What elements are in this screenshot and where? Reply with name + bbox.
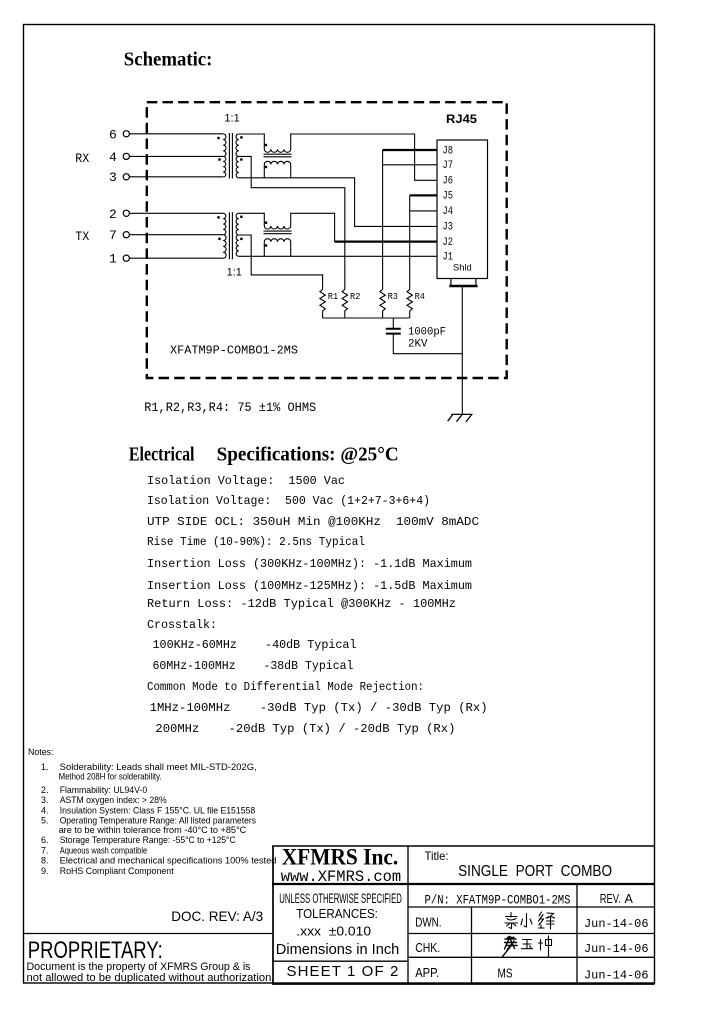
svg-text:8.: 8. [41,855,49,865]
svg-text:3.: 3. [41,795,49,805]
svg-text:DWN.: DWN. [415,916,441,930]
svg-text:1MHz-100MHz -30dB Typ (Tx): 1MHz-100MHz -30dB Typ (Tx) / -30dB Typ (… [150,701,488,715]
svg-text:6: 6 [109,127,117,142]
svg-text:Jun-14-06: Jun-14-06 [584,942,649,956]
svg-text:200MHz -20dB Typ (Tx) / -20: 200MHz -20dB Typ (Tx) / -20dB Typ (Rx) [155,722,455,736]
svg-text:J2: J2 [443,237,454,249]
svg-text:Insertion Loss (100MHz-125MHz): Insertion Loss (100MHz-125MHz): -1.5dB M… [147,579,472,593]
svg-text:TOLERANCES:: TOLERANCES: [296,906,378,921]
svg-text:2: 2 [109,207,117,222]
svg-text:R1: R1 [328,291,339,302]
svg-text:Electrical and mechanical spec: Electrical and mechanical specifications… [60,855,277,865]
svg-text:Jun-14-06: Jun-14-06 [584,968,649,982]
svg-text:1.: 1. [41,762,49,772]
svg-text:R3: R3 [388,291,399,302]
svg-text:9.: 9. [41,866,49,876]
svg-text:P/N: XFATM9P-COMBO1-2MS: P/N: XFATM9P-COMBO1-2MS [425,893,571,908]
svg-text:REV.: REV. [600,892,621,906]
svg-text:Dimensions in Inch: Dimensions in Inch [276,941,400,958]
svg-text:2KV: 2KV [408,339,428,351]
svg-text:J8: J8 [443,145,454,157]
svg-text:4: 4 [109,150,117,165]
svg-text:APP.: APP. [415,966,439,980]
svg-text:J3: J3 [443,222,454,234]
svg-text:60MHz-100MHz -38dB Typical: 60MHz-100MHz -38dB Typical [153,659,354,673]
svg-text:www.XFMRS.com: www.XFMRS.com [281,868,402,886]
svg-text:Aqueous wash compatible: Aqueous wash compatible [60,845,148,855]
svg-text:Isolation Voltage: 1500 Vac: Isolation Voltage: 1500 Vac [147,474,345,488]
svg-text:RJ45: RJ45 [446,112,477,126]
svg-text:7.: 7. [41,845,49,855]
svg-text:DOC. REV: A/3: DOC. REV: A/3 [171,908,263,924]
svg-text:Shld: Shld [453,263,472,274]
svg-text:A: A [625,892,634,906]
svg-text:Method 208H for solderability.: Method 208H for solderability. [59,771,162,781]
svg-text:RX: RX [75,151,89,166]
svg-text:UNLESS OTHERWISE SPECIFIED: UNLESS OTHERWISE SPECIFIED [279,891,402,906]
svg-text:RoHS Compliant Component: RoHS Compliant Component [60,866,174,876]
svg-text:3: 3 [109,170,117,185]
svg-text:are to be within tolerance fro: are to be within tolerance from -40°C to… [59,825,247,835]
svg-text:J6: J6 [443,176,454,188]
svg-text:Schematic:: Schematic: [124,49,213,71]
svg-text:1: 1 [109,252,117,267]
svg-text:R1,R2,R3,R4: 75 ±1% OHMS: R1,R2,R3,R4: 75 ±1% OHMS [144,400,316,415]
svg-text:R4: R4 [415,291,426,302]
svg-text:SINGLE PORT COMBO: SINGLE PORT COMBO [458,863,612,880]
svg-text:Jun-14-06: Jun-14-06 [584,917,649,931]
svg-text:Notes:: Notes: [28,747,54,757]
svg-text:XFATM9P-COMBO1-2MS: XFATM9P-COMBO1-2MS [170,344,298,358]
svg-text:Isolation Voltage: 500 Vac (1: Isolation Voltage: 500 Vac (1+2+7-3+6+4) [147,494,430,508]
svg-text:Common Mode to Differential Mo: Common Mode to Differential Mode Rejecti… [147,680,424,694]
svg-text:CHK.: CHK. [415,941,440,955]
svg-text:Flammability: UL94V-0: Flammability: UL94V-0 [60,785,148,795]
svg-text:6.: 6. [41,835,49,845]
svg-text:MS: MS [498,967,513,981]
svg-text:100KHz-60MHz -40dB Typical: 100KHz-60MHz -40dB Typical [153,638,357,652]
svg-text:PROPRIETARY:: PROPRIETARY: [28,937,163,964]
svg-text:5.: 5. [41,816,49,826]
svg-text:Title:: Title: [425,849,449,863]
svg-text:Rise Time (10-90%): 2.5ns Typi: Rise Time (10-90%): 2.5ns Typical [147,535,365,549]
svg-text:J7: J7 [443,160,454,172]
svg-text:UTP SIDE OCL: 350uH Min @100KH: UTP SIDE OCL: 350uH Min @100KHz 100mV 8m… [147,515,479,529]
svg-text:1:1: 1:1 [224,113,239,125]
svg-text:1000pF: 1000pF [408,327,446,339]
svg-text:1:1: 1:1 [227,266,242,278]
svg-text:R2: R2 [350,291,361,302]
svg-text:J5: J5 [443,191,454,203]
svg-text:Return Loss: -12dB Typical @30: Return Loss: -12dB Typical @300KHz - 100… [147,597,456,611]
svg-text:Storage Temperature Range: -55: Storage Temperature Range: -55°C to +125… [60,835,236,845]
svg-text:2.: 2. [41,785,49,795]
svg-text:J4: J4 [443,206,454,218]
svg-text:Operating Temperature Range: A: Operating Temperature Range: All listed … [60,816,257,826]
svg-text:J1: J1 [443,252,454,264]
svg-text:SHEET 1 OF 2: SHEET 1 OF 2 [287,963,399,980]
svg-text:Electrical: Electrical [129,444,195,466]
svg-text:Specifications: @25°C: Specifications: @25°C [217,444,399,466]
svg-text:.xxx ±0.010: .xxx ±0.010 [296,924,371,939]
svg-text:XFMRS Inc.: XFMRS Inc. [282,845,399,871]
svg-text:Crosstalk:: Crosstalk: [147,618,217,632]
svg-text:ASTM oxygen index: > 28%: ASTM oxygen index: > 28% [60,795,167,805]
svg-text:4.: 4. [41,806,49,816]
svg-text:Insulation System: Class F 155: Insulation System: Class F 155°C. UL fil… [60,806,256,816]
svg-text:Insertion Loss (300KHz-100MHz): Insertion Loss (300KHz-100MHz): -1.1dB M… [147,557,472,571]
svg-text:7: 7 [109,228,117,243]
svg-text:not allowed to be duplicated w: not allowed to be duplicated without aut… [27,972,275,984]
svg-text:TX: TX [75,229,89,244]
